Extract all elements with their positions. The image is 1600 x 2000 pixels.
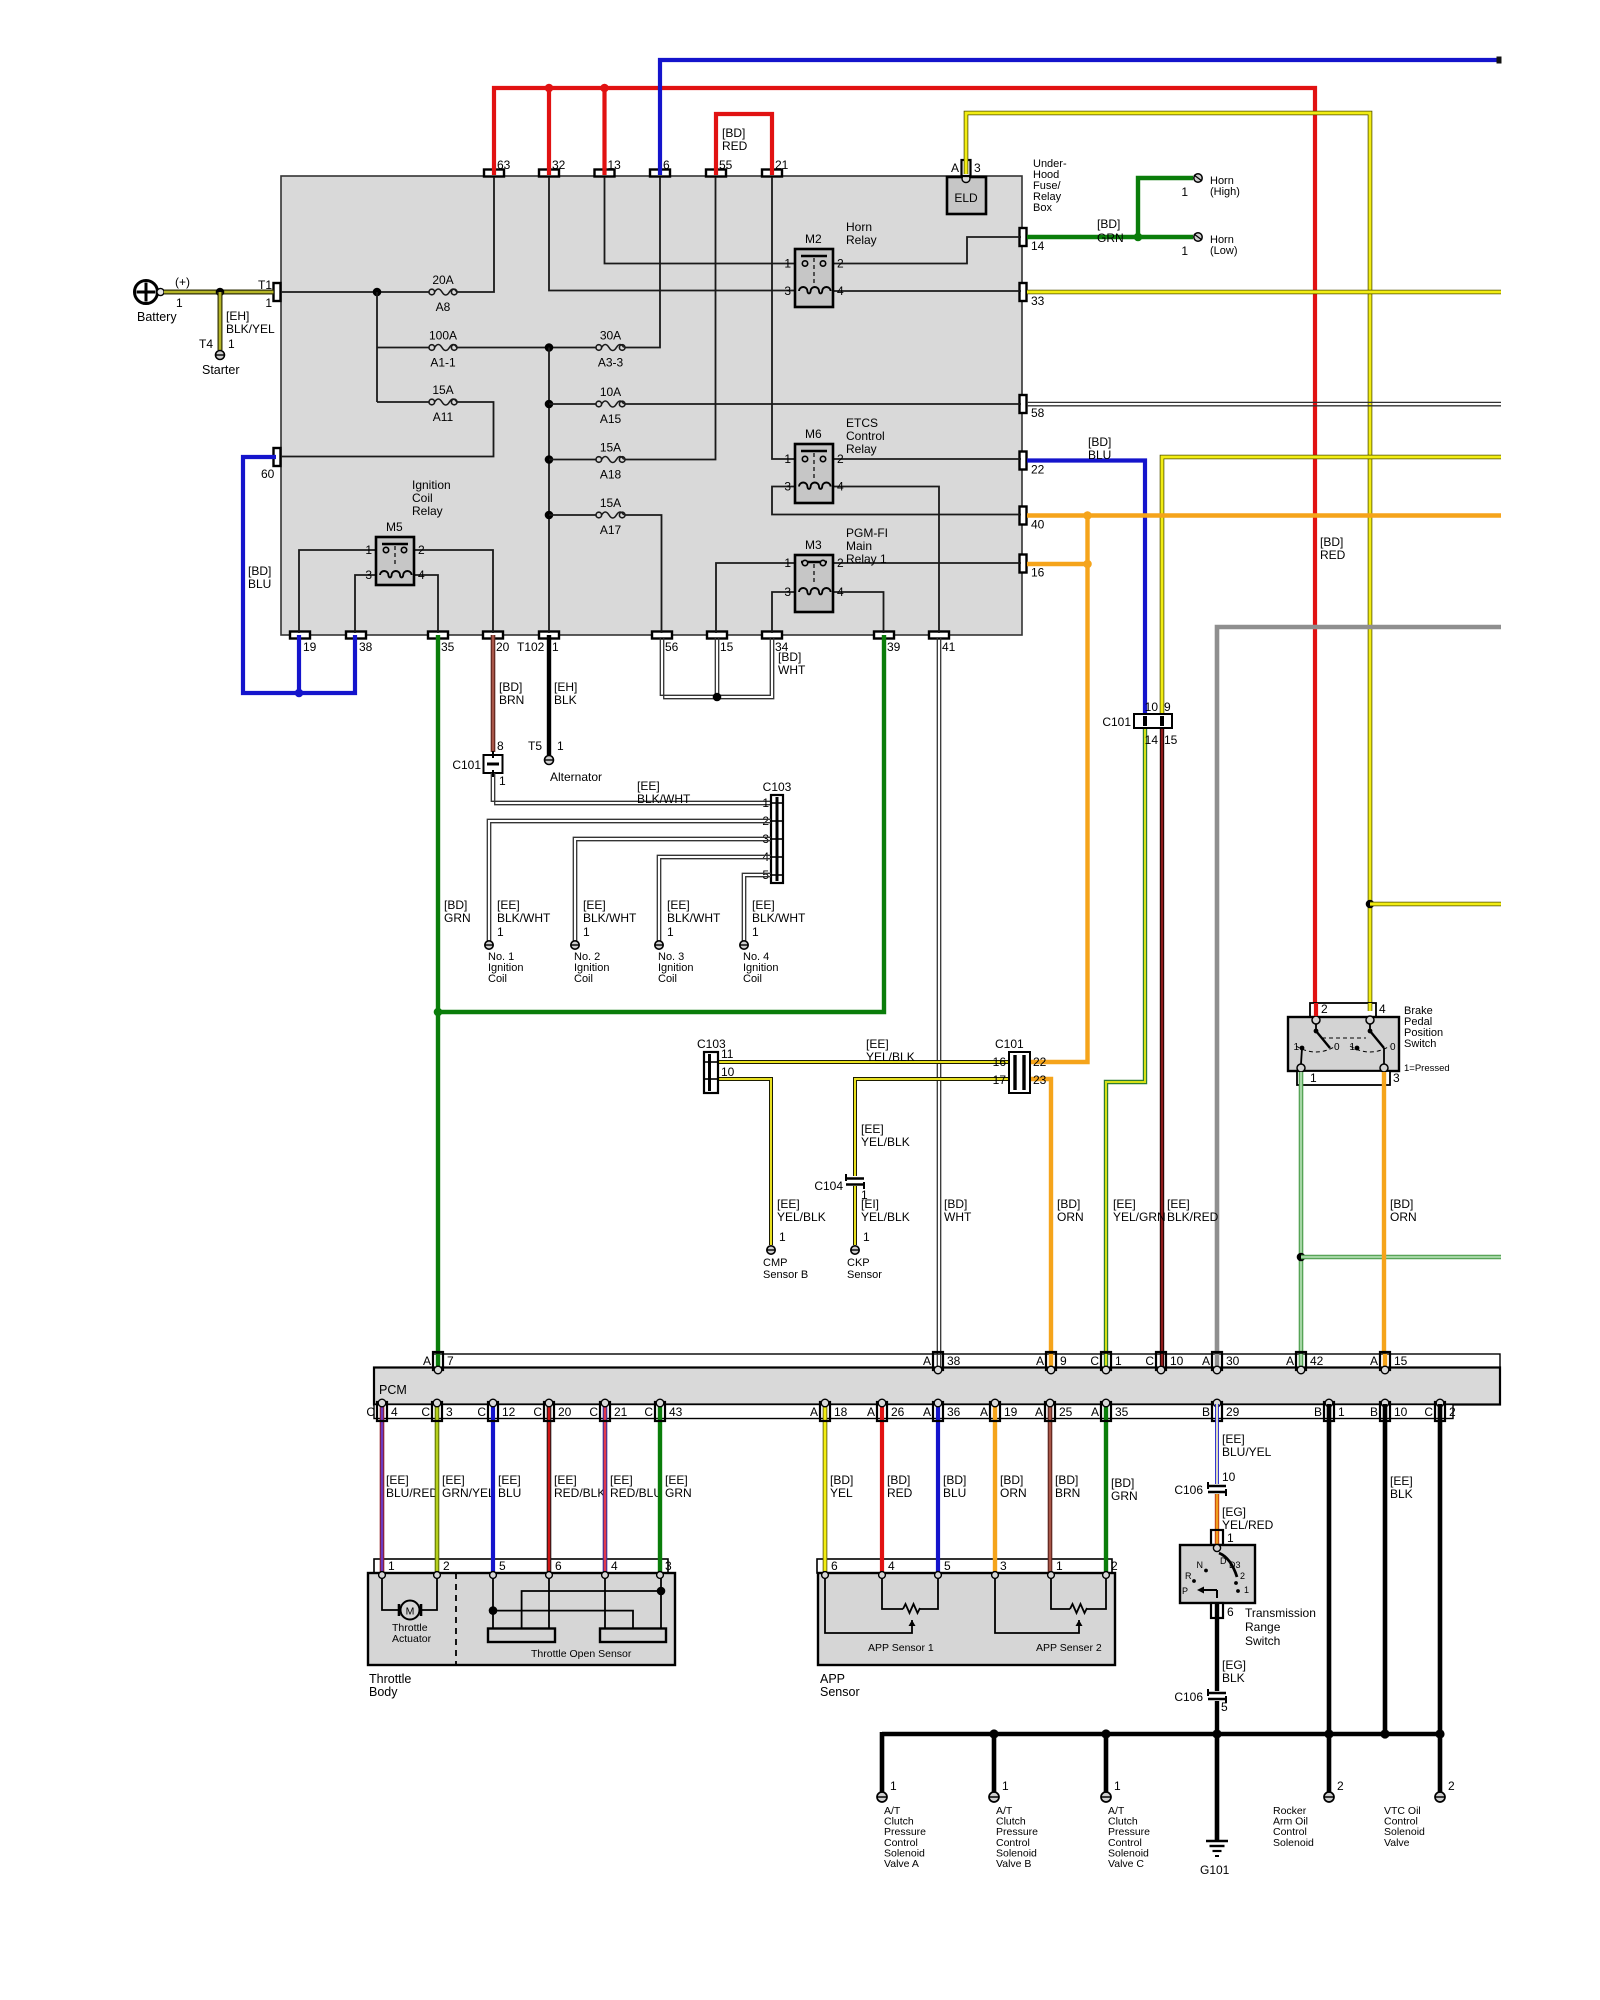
svg-text:BLK/WHT: BLK/WHT — [497, 911, 551, 925]
svg-text:3: 3 — [974, 161, 981, 175]
svg-text:D3: D3 — [1229, 1560, 1241, 1570]
wire blue pin 6 feed — [660, 60, 1499, 175]
wire M2 pin 4 to pin 33 — [833, 290, 1021, 292]
TRS pin 1 — [1211, 1530, 1223, 1545]
node T1 bus — [373, 288, 382, 297]
wire coil 2 BLK/WHT — [573, 837, 771, 941]
svg-text:ORN: ORN — [1057, 1210, 1084, 1224]
svg-text:[BD]: [BD] — [943, 1473, 966, 1487]
wire 100A out — [457, 347, 596, 349]
PCM pin C21 — [600, 1402, 610, 1421]
svg-text:Ignition: Ignition — [412, 478, 451, 492]
svg-text:[EE]: [EE] — [637, 779, 660, 793]
svg-text:BLK/WHT: BLK/WHT — [667, 911, 721, 925]
node 100A out — [545, 343, 554, 352]
svg-text:1: 1 — [1227, 1531, 1234, 1545]
svg-text:ETCS: ETCS — [846, 416, 878, 430]
svg-text:PGM-FI: PGM-FI — [846, 526, 888, 540]
svg-text:A: A — [923, 1405, 931, 1419]
APP connector pins — [822, 1572, 829, 1579]
svg-text:4: 4 — [837, 480, 844, 494]
svg-text:GRN: GRN — [1097, 231, 1124, 245]
wire green stub A7 — [436, 1354, 440, 1368]
node A17 tap — [545, 511, 554, 520]
PCM pin B10 — [1380, 1402, 1390, 1421]
svg-text:2: 2 — [1240, 1571, 1245, 1581]
wire blk/red stub C10 — [1160, 1354, 1164, 1368]
node horn split — [1134, 233, 1143, 242]
svg-text:32: 32 — [552, 158, 566, 172]
svg-text:A: A — [423, 1354, 431, 1368]
APP sensor box — [818, 1573, 1115, 1665]
connector C104 — [846, 1177, 864, 1180]
svg-text:3: 3 — [1000, 1559, 1007, 1573]
wire EE RED/BLU C21 — [603, 1404, 608, 1575]
svg-text:B: B — [1370, 1405, 1378, 1419]
wire center bus — [548, 348, 550, 634]
svg-text:[BD]: [BD] — [499, 680, 522, 694]
wire green pin 35 to PCM A7 — [436, 635, 440, 1368]
svg-text:20: 20 — [496, 640, 510, 654]
svg-text:Sensor: Sensor — [847, 1269, 882, 1281]
svg-text:BLK/YEL: BLK/YEL — [226, 322, 275, 336]
under-hood fuse/relay box — [281, 176, 1022, 635]
svg-text:3: 3 — [784, 480, 791, 494]
fuse A3-3 30A — [596, 345, 602, 351]
svg-text:1: 1 — [499, 774, 506, 788]
wire orange pin 16 — [1027, 562, 1088, 566]
svg-text:15A: 15A — [600, 496, 621, 510]
svg-text:[BD]: [BD] — [1111, 1476, 1134, 1490]
svg-text:1: 1 — [497, 925, 504, 939]
svg-text:BLU: BLU — [498, 1486, 521, 1500]
svg-text:55: 55 — [719, 158, 733, 172]
svg-text:C101: C101 — [452, 758, 481, 772]
PCM pin A42 — [1296, 1352, 1306, 1370]
svg-text:42: 42 — [1310, 1354, 1324, 1368]
wire coil 3 BLK/WHT — [657, 855, 771, 941]
wire white pin 58 — [1027, 401, 1501, 403]
wire 100A row — [377, 347, 429, 349]
wire M5 pin 3 to pin 38 — [355, 575, 376, 633]
svg-text:[EE]: [EE] — [667, 898, 690, 912]
svg-text:BLK: BLK — [1222, 1671, 1245, 1685]
PCM pin A19 — [990, 1402, 1000, 1421]
svg-text:Control: Control — [846, 429, 885, 443]
svg-text:1: 1 — [557, 739, 564, 753]
wire YEL/BLK C104 to CKP — [853, 1186, 857, 1245]
svg-text:3: 3 — [784, 585, 791, 599]
transmission range switch box — [1180, 1545, 1255, 1603]
svg-text:Relay: Relay — [846, 233, 877, 247]
svg-text:1: 1 — [1056, 1559, 1063, 1573]
PCM pin A26 — [877, 1402, 887, 1421]
wire EG YEL/RED — [1215, 1494, 1219, 1531]
terminal no.2 ignition coil — [571, 941, 579, 949]
ELD unit — [947, 177, 986, 214]
svg-text:10: 10 — [1145, 700, 1159, 714]
wire red battery feed (pins 63/32/13) — [494, 88, 1315, 1016]
wire lt green to right edge — [1301, 1255, 1501, 1260]
PCM pin C3 — [432, 1402, 442, 1421]
svg-text:1=Pressed: 1=Pressed — [1404, 1063, 1450, 1074]
svg-text:A: A — [980, 1405, 988, 1419]
svg-text:60: 60 — [261, 467, 275, 481]
svg-text:1: 1 — [667, 925, 674, 939]
svg-text:A17: A17 — [600, 523, 622, 537]
svg-text:4: 4 — [1379, 1002, 1386, 1016]
svg-text:[EH]: [EH] — [554, 680, 577, 694]
svg-text:6: 6 — [555, 1559, 562, 1573]
svg-text:YEL/BLK: YEL/BLK — [866, 1050, 915, 1064]
svg-text:10: 10 — [721, 1065, 735, 1079]
throttle open sensor element 2 — [600, 1629, 666, 1643]
wire orange stub A9 — [1049, 1354, 1053, 1368]
wire yellow mid to C101 pin 9 — [1162, 457, 1501, 715]
svg-text:C104: C104 — [814, 1179, 843, 1193]
svg-text:A: A — [923, 1354, 931, 1368]
svg-text:1: 1 — [583, 925, 590, 939]
wire gray stub A30 — [1215, 1354, 1220, 1368]
svg-text:0: 0 — [1334, 1042, 1340, 1053]
wire EE BLU/YEL B29 — [1215, 1404, 1219, 1484]
svg-text:14: 14 — [1031, 239, 1045, 253]
wire BD BRN A25 — [1048, 1404, 1053, 1575]
wire pin 32 to M2 pin 3 — [549, 177, 795, 291]
svg-text:A: A — [810, 1405, 818, 1419]
wire blue pin 60 loop — [243, 457, 355, 693]
svg-text:4: 4 — [837, 585, 844, 599]
svg-text:4: 4 — [611, 1559, 618, 1573]
pin 14 — [1020, 228, 1027, 246]
svg-text:CMP: CMP — [763, 1257, 787, 1269]
svg-text:41: 41 — [942, 640, 956, 654]
APP sensor connector strip — [817, 1559, 1112, 1573]
wire BLK/WHT C101 to C103 pin 1 — [491, 773, 771, 801]
connector C106 pin 10 — [1208, 1485, 1226, 1488]
wire battery BLK/YEL to T1 — [164, 290, 274, 295]
svg-text:Coil: Coil — [488, 973, 507, 985]
node bus G101 — [1212, 1729, 1221, 1738]
wire M6 pin 2 to pin 22 — [833, 458, 1021, 460]
svg-text:(High): (High) — [1210, 186, 1240, 198]
wire BD YEL A18 — [823, 1404, 828, 1575]
svg-text:2: 2 — [1448, 1779, 1455, 1793]
wire orange branch down — [1030, 516, 1088, 1063]
svg-text:2: 2 — [418, 543, 425, 557]
terminal T4 starter — [216, 351, 225, 360]
svg-text:2: 2 — [1111, 1559, 1118, 1573]
svg-text:4: 4 — [418, 568, 425, 582]
svg-text:1: 1 — [1002, 1779, 1009, 1793]
svg-text:ELD: ELD — [954, 191, 978, 205]
svg-text:63: 63 — [497, 158, 511, 172]
svg-text:YEL/GRN: YEL/GRN — [1113, 1210, 1166, 1224]
svg-text:A11: A11 — [433, 410, 454, 424]
ground bus — [882, 1732, 1440, 1737]
PCM box — [433, 1354, 1500, 1368]
svg-text:BLK/WHT: BLK/WHT — [752, 911, 806, 925]
svg-text:Relay 1: Relay 1 — [846, 552, 887, 566]
svg-text:40: 40 — [1031, 518, 1045, 532]
node bus rocker — [1324, 1729, 1333, 1738]
node lt green — [1297, 1253, 1306, 1262]
svg-text:Valve C: Valve C — [1108, 1858, 1144, 1870]
svg-text:3: 3 — [762, 832, 769, 846]
svg-text:100A: 100A — [429, 329, 457, 343]
relay M2 (horn relay) — [795, 249, 833, 307]
svg-text:T102: T102 — [517, 640, 545, 654]
wire orange C101-23 to PCM A9 — [1030, 1079, 1051, 1368]
wire EE BLU C12 — [491, 1404, 495, 1575]
svg-text:[EH]: [EH] — [226, 309, 249, 323]
svg-text:2: 2 — [837, 452, 844, 466]
svg-text:A: A — [951, 161, 959, 175]
relay M5 (ignition coil relay) — [376, 537, 414, 585]
wire A11 to pin 60 — [281, 402, 494, 457]
wire EE GRN/YEL C3 — [435, 1404, 440, 1575]
svg-text:4: 4 — [762, 850, 769, 864]
svg-text:BRN: BRN — [1055, 1486, 1080, 1500]
svg-text:0: 0 — [1390, 1042, 1396, 1053]
connector C101 pin8/1 — [484, 755, 503, 773]
svg-text:Relay: Relay — [412, 504, 443, 518]
relay M6 (ETCS control relay) — [795, 444, 833, 503]
svg-text:21: 21 — [775, 158, 789, 172]
svg-text:[EE]: [EE] — [610, 1473, 633, 1487]
svg-text:YEL/RED: YEL/RED — [1222, 1518, 1274, 1532]
svg-text:20: 20 — [558, 1405, 572, 1419]
node blue loop — [295, 689, 304, 698]
svg-text:[EE]: [EE] — [583, 898, 606, 912]
svg-text:B: B — [1314, 1405, 1322, 1419]
svg-text:Horn: Horn — [846, 220, 872, 234]
PCM pin B1 — [1324, 1402, 1334, 1421]
wire orange stub A15 — [1383, 1354, 1387, 1368]
svg-text:[EE]: [EE] — [1222, 1432, 1245, 1446]
wire bus down 2 — [376, 348, 378, 403]
svg-text:C: C — [589, 1405, 598, 1419]
APP sensor 2 circuit — [1051, 1578, 1070, 1609]
svg-text:1: 1 — [1244, 1585, 1249, 1595]
terminal Valve C — [1101, 1792, 1111, 1802]
terminal Valve B — [989, 1792, 999, 1802]
svg-text:[EE]: [EE] — [498, 1473, 521, 1487]
ground G101 — [1206, 1840, 1228, 1843]
svg-text:[BD]: [BD] — [1057, 1197, 1080, 1211]
wire orange pin 40 — [1027, 513, 1501, 517]
TRS rotary contacts — [1219, 1553, 1237, 1577]
svg-text:[EE]: [EE] — [386, 1473, 409, 1487]
svg-text:15: 15 — [1164, 733, 1178, 747]
PCM pin A38 — [933, 1352, 943, 1370]
wire 30A to pin 6 — [625, 177, 660, 348]
svg-text:[EG]: [EG] — [1222, 1505, 1246, 1519]
node orange 40 — [1083, 511, 1092, 520]
svg-text:1: 1 — [552, 640, 559, 654]
pin 35 — [428, 632, 448, 639]
fuse A17 15A — [596, 512, 602, 518]
svg-text:A: A — [1036, 1354, 1044, 1368]
svg-text:Throttle Open Sensor: Throttle Open Sensor — [531, 1648, 632, 1660]
wire orange BPS-3 to PCM A15 — [1382, 1072, 1386, 1368]
svg-text:A1-1: A1-1 — [430, 356, 456, 370]
svg-text:1: 1 — [228, 337, 235, 351]
svg-text:16: 16 — [1031, 566, 1045, 580]
svg-text:Alternator: Alternator — [550, 770, 602, 784]
svg-text:17: 17 — [993, 1073, 1007, 1087]
pin A3 — [962, 160, 971, 176]
svg-text:BLK/WHT: BLK/WHT — [637, 792, 691, 806]
svg-text:Actuator: Actuator — [392, 1633, 432, 1645]
wire M3 pin 1 to pin 15 — [716, 563, 795, 633]
svg-text:A8: A8 — [436, 300, 451, 314]
svg-text:BLK: BLK — [554, 693, 577, 707]
PCM pin A36 — [933, 1402, 943, 1421]
throttle open sensor wiring — [492, 1578, 494, 1628]
wire gray to PCM A30 — [1217, 627, 1501, 1368]
wire BD BLU A36 — [936, 1404, 940, 1575]
connector C101 (10,9/14,15) — [1134, 714, 1172, 728]
terminal horn high — [1194, 174, 1202, 182]
svg-text:RED: RED — [1320, 548, 1346, 562]
svg-text:C101: C101 — [995, 1037, 1024, 1051]
wire C106-5 to ground bus — [1215, 1701, 1219, 1734]
svg-text:5: 5 — [1221, 1700, 1228, 1714]
pin 22 — [1020, 452, 1027, 470]
svg-text:26: 26 — [891, 1405, 905, 1419]
svg-text:C103: C103 — [763, 780, 792, 794]
APP sensor 1 circuit — [882, 1578, 903, 1609]
svg-text:2: 2 — [1337, 1779, 1344, 1793]
PCM pin C12 — [488, 1402, 498, 1421]
PCM pin A35 — [1101, 1402, 1111, 1421]
svg-text:[BD]: [BD] — [830, 1473, 853, 1487]
svg-text:Transmission: Transmission — [1245, 1606, 1316, 1620]
pin 39 — [874, 632, 894, 639]
svg-text:[EG]: [EG] — [1222, 1658, 1246, 1672]
svg-text:APP Sensor 1: APP Sensor 1 — [868, 1642, 934, 1654]
wire A18 row — [549, 459, 596, 461]
svg-text:1: 1 — [863, 1230, 870, 1244]
terminal T5 alternator — [545, 756, 554, 765]
wire M3 pin 2 to pin 16 — [833, 562, 1021, 564]
svg-text:1: 1 — [1349, 1042, 1355, 1053]
svg-text:21: 21 — [614, 1405, 628, 1419]
svg-text:D: D — [1220, 1556, 1227, 1566]
wire C2 to VTC solenoid — [1438, 1404, 1443, 1792]
svg-text:15: 15 — [720, 640, 734, 654]
pin 34 — [762, 632, 782, 639]
wire white pin 41 to PCM A38 — [936, 638, 938, 1368]
PCM pin C10 — [1156, 1352, 1166, 1370]
svg-text:9: 9 — [1060, 1354, 1067, 1368]
svg-text:Solenoid: Solenoid — [1273, 1837, 1314, 1849]
svg-text:38: 38 — [947, 1354, 961, 1368]
svg-text:M6: M6 — [805, 427, 822, 441]
svg-text:N: N — [1197, 1560, 1204, 1570]
svg-text:19: 19 — [1004, 1405, 1018, 1419]
connector C101 (16,22/17,23) — [1009, 1052, 1030, 1093]
svg-text:[BD]: [BD] — [1000, 1473, 1023, 1487]
node bus B — [989, 1729, 998, 1738]
svg-text:RED/BLU: RED/BLU — [610, 1486, 662, 1500]
svg-text:WHT: WHT — [778, 663, 806, 677]
svg-text:10: 10 — [1170, 1354, 1184, 1368]
svg-text:1: 1 — [784, 257, 791, 271]
svg-text:ORN: ORN — [1000, 1486, 1027, 1500]
svg-text:Body: Body — [369, 1685, 398, 1699]
wire BD RED A26 — [880, 1404, 884, 1575]
wire A18 to pin 55 — [625, 177, 716, 460]
svg-text:CKP: CKP — [847, 1257, 870, 1269]
wire bus down — [376, 292, 378, 348]
svg-text:6: 6 — [1227, 1605, 1234, 1619]
svg-text:[BD]: [BD] — [722, 126, 745, 140]
svg-text:YEL/BLK: YEL/BLK — [861, 1210, 910, 1224]
PCM pin A25 — [1045, 1402, 1055, 1421]
svg-text:Starter: Starter — [202, 363, 240, 377]
wire bus to solenoid A — [880, 1732, 885, 1792]
PCM pin A18 — [820, 1402, 830, 1421]
throttle body connector strip — [374, 1559, 668, 1573]
svg-text:GRN: GRN — [665, 1486, 692, 1500]
fuse A11 15A — [429, 399, 435, 405]
fuse A8 20A — [429, 289, 435, 295]
terminal CMP sensor B — [767, 1246, 775, 1254]
wire YEL/GRN C101-14 to PCM C1 — [1106, 728, 1145, 1368]
wire A17 to pin 56 — [625, 515, 662, 633]
svg-text:1: 1 — [1115, 1354, 1122, 1368]
svg-text:A: A — [1091, 1405, 1099, 1419]
PCM pin A7 — [433, 1352, 443, 1370]
svg-text:T4: T4 — [199, 337, 213, 351]
pin 16 — [1020, 555, 1027, 573]
wire blue pin 22 to C101 pin 10 — [1027, 461, 1145, 716]
svg-text:A: A — [1286, 1354, 1294, 1368]
svg-text:[EE]: [EE] — [866, 1037, 889, 1051]
wire bus to G101 — [1215, 1734, 1220, 1840]
node A18 tap — [545, 455, 554, 464]
svg-text:YEL: YEL — [830, 1486, 853, 1500]
svg-text:35: 35 — [1115, 1405, 1129, 1419]
svg-text:22: 22 — [1031, 463, 1045, 477]
node red 32 — [545, 84, 554, 93]
wire yellow stub into BPS pin 4 — [1368, 1003, 1373, 1011]
svg-text:3: 3 — [446, 1405, 453, 1419]
fuse A18 15A — [596, 457, 602, 463]
svg-text:RED: RED — [887, 1486, 913, 1500]
svg-text:[BD]: [BD] — [1088, 435, 1111, 449]
svg-text:C106: C106 — [1174, 1483, 1203, 1497]
wire BD GRN A35 — [1104, 1404, 1108, 1575]
svg-text:13: 13 — [608, 158, 622, 172]
svg-text:56: 56 — [665, 640, 679, 654]
wire BLK/RED C101-15 to PCM C10 — [1160, 728, 1164, 1368]
svg-text:25: 25 — [1059, 1405, 1073, 1419]
svg-text:YEL/BLK: YEL/BLK — [777, 1210, 826, 1224]
node A15 tap — [545, 400, 554, 409]
svg-text:Box: Box — [1033, 202, 1052, 214]
wire white jumper — [660, 638, 770, 695]
terminal Valve A — [877, 1792, 887, 1802]
pin 13 — [595, 170, 615, 177]
svg-text:C: C — [533, 1405, 542, 1419]
wire bus to solenoid C — [1104, 1734, 1109, 1792]
svg-text:C: C — [644, 1405, 653, 1419]
wire pin 13 to M2 pin 1 — [605, 177, 796, 264]
pin 63 — [484, 170, 504, 177]
